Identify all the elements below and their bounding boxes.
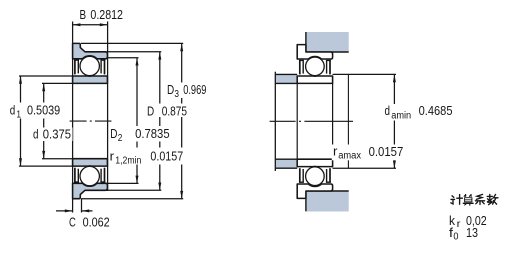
svg-text:2: 2 <box>118 133 123 144</box>
svg-text:0: 0 <box>453 232 459 243</box>
svg-text:amax: amax <box>338 151 361 162</box>
svg-text:0.7835: 0.7835 <box>135 126 170 141</box>
svg-text:1: 1 <box>16 110 21 121</box>
svg-text:0.0157: 0.0157 <box>150 148 183 163</box>
svg-text:C: C <box>69 215 76 230</box>
svg-text:amin: amin <box>391 111 411 122</box>
svg-text:13: 13 <box>466 225 478 240</box>
svg-text:0.0157: 0.0157 <box>369 144 404 159</box>
svg-text:d: d <box>10 103 16 118</box>
svg-text:B: B <box>80 7 87 22</box>
svg-text:D: D <box>110 126 117 141</box>
svg-text:0.5039: 0.5039 <box>27 103 60 118</box>
svg-text:0.2812: 0.2812 <box>90 7 123 22</box>
svg-text:1,2min: 1,2min <box>115 156 141 167</box>
svg-text:3: 3 <box>174 89 179 100</box>
svg-text:0.375: 0.375 <box>43 126 71 141</box>
svg-text:D: D <box>167 82 174 97</box>
svg-text:r: r <box>110 148 115 163</box>
svg-text:0.875: 0.875 <box>162 103 187 118</box>
svg-text:D: D <box>147 103 154 118</box>
svg-text:0.062: 0.062 <box>83 215 110 230</box>
svg-text:0.4685: 0.4685 <box>419 103 453 118</box>
svg-text:d: d <box>385 103 391 118</box>
svg-text:d: d <box>33 126 39 141</box>
svg-text:0.969: 0.969 <box>183 82 206 97</box>
